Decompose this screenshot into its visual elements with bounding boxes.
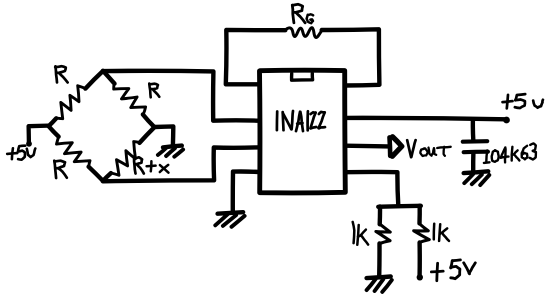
label +5V (left) <box>7 146 35 160</box>
op-amp U1 INA122 body <box>260 70 346 193</box>
wire INA V+ to +5V rail <box>345 118 506 119</box>
resistor 1k (left) <box>376 225 390 244</box>
ground (capacitor) <box>464 171 490 185</box>
ground (INA V-) <box>215 212 244 227</box>
capacitor C1 plate bottom <box>464 150 488 155</box>
resistor R (bottom-left arm) <box>49 126 103 181</box>
wire RG loop left <box>226 30 285 84</box>
label RG <box>292 4 313 23</box>
resistor R+x (bottom-right arm) <box>103 127 155 181</box>
wire 1k right to +5V <box>417 243 422 276</box>
capacitor C1 plate top <box>463 139 487 144</box>
resistor 1k (right) <box>414 224 430 243</box>
label R (bottom-left) <box>54 161 67 178</box>
wire INA Vout pin <box>345 143 388 148</box>
node +5V left terminal dot <box>26 141 32 147</box>
wire RG loop right <box>322 29 380 85</box>
label 104K63 <box>484 143 536 163</box>
wire bridge top to INA in+ pin <box>103 71 259 121</box>
label Vout <box>407 140 451 157</box>
wire +5V rail to capacitor <box>471 119 476 140</box>
label INA122 <box>277 111 325 131</box>
label R+x <box>134 157 168 173</box>
label +5V (top-right) <box>503 94 543 108</box>
Vout arrow chevron <box>392 137 402 157</box>
wire +5V left feed <box>29 126 49 144</box>
ground (1k left) <box>367 277 392 292</box>
label 1k (left) <box>353 222 368 245</box>
resistor R (top-left arm) <box>49 71 104 126</box>
wire bridge right node to ground <box>155 126 173 145</box>
Vout arrow bar <box>387 137 392 155</box>
wire divider left drop <box>378 206 383 224</box>
node +5V bottom terminal dot <box>417 274 423 280</box>
ground (bridge right) <box>158 146 183 157</box>
resistor RG <box>285 28 323 38</box>
wire INA V- to ground <box>233 172 259 213</box>
IC notch mark <box>292 73 313 80</box>
label +5V (bottom-right) <box>431 260 475 281</box>
label 1k (right) <box>434 224 449 241</box>
wire 1k left to ground <box>377 243 382 276</box>
wire INA Ref pin to divider <box>345 172 398 206</box>
resistor R (top-right arm) <box>103 71 154 127</box>
node +5V right terminal dot <box>503 117 510 124</box>
label R (top-left) <box>55 66 67 82</box>
wire capacitor to ground <box>471 152 476 171</box>
wire divider right drop <box>417 206 422 224</box>
wire bridge bottom to INA in- pin <box>103 147 259 181</box>
wire divider top bar <box>378 206 421 207</box>
label R (top-right) <box>149 84 159 98</box>
